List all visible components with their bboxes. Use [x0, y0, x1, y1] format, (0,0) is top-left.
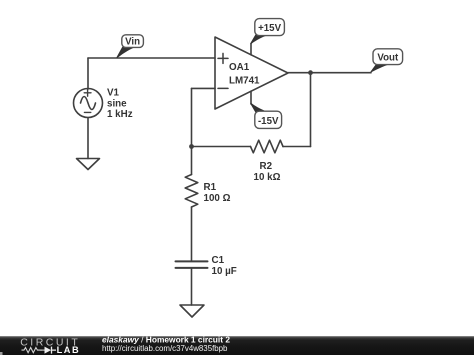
- svg-text:100 Ω: 100 Ω: [204, 193, 231, 204]
- svg-text:LM741: LM741: [229, 75, 260, 86]
- CircuitLab logo: diode: [40, 349, 44, 351]
- svg-text:V1: V1: [107, 88, 120, 99]
- wire: -15V stub from op-amp bottom edge: [250, 91, 252, 104]
- wire: V1 top up to Vin net: [87, 58, 89, 89]
- svg-text:Vin: Vin: [125, 37, 140, 48]
- svg-text:Vout: Vout: [377, 53, 399, 64]
- net flag Vin: [117, 35, 144, 58]
- resistor R1: [185, 175, 198, 207]
- wire: op-amp output to Vout flag: [288, 72, 371, 74]
- junction: output node: [308, 70, 313, 75]
- wire: to op-amp - input: [192, 87, 216, 89]
- svg-text:OA1: OA1: [229, 62, 250, 73]
- CircuitLab logo: resistor zigzag: [22, 348, 42, 353]
- capacitor C1: [176, 261, 208, 268]
- ground (below V1): [77, 159, 100, 170]
- wire: C1 bottom plate to ground: [191, 269, 193, 306]
- net flag Vout: [371, 49, 403, 72]
- wire: R2 left terminal to inverting node: [192, 146, 251, 148]
- op-amp OA1: [215, 37, 288, 109]
- footer corner mark: [0, 352, 3, 355]
- svg-text:C1: C1: [212, 255, 225, 266]
- svg-text:R1: R1: [204, 182, 217, 193]
- wire: feedback down-leg to R2 right terminal: [283, 146, 311, 148]
- wire: V1 bottom to ground: [87, 118, 89, 159]
- power flag -15V: [251, 103, 282, 128]
- wire: Vin net to op-amp + input: [88, 57, 215, 59]
- wire: output node down to feedback: [310, 73, 312, 147]
- svg-text:10 µF: 10 µF: [212, 266, 237, 277]
- power flag +15V: [251, 19, 285, 44]
- resistor R2: [251, 140, 283, 153]
- ground (below C1): [180, 305, 204, 317]
- wire: R1 bottom to C1 top plate: [191, 207, 193, 261]
- svg-text:-15V: -15V: [258, 116, 279, 127]
- junction: inverting node: [189, 144, 194, 149]
- svg-text:1 kHz: 1 kHz: [107, 109, 133, 120]
- svg-text:http://circuitlab.com/c37v4w83: http://circuitlab.com/c37v4w835fbpb: [102, 344, 228, 353]
- wire: inverting node up: [191, 88, 193, 146]
- svg-text:+15V: +15V: [258, 23, 281, 34]
- voltage source V1: [74, 89, 103, 118]
- svg-text:LAB: LAB: [57, 345, 81, 355]
- svg-text:10 kΩ: 10 kΩ: [254, 172, 281, 183]
- svg-text:R2: R2: [260, 161, 273, 172]
- wire: inverting node down to R1: [191, 147, 193, 175]
- footer bar: [0, 336, 474, 355]
- wire: +15V stub to op-amp top edge: [250, 44, 252, 55]
